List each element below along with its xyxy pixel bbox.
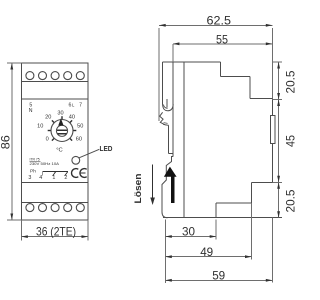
bottom terminal screw 5	[76, 204, 84, 212]
front bottom strip line	[21, 201, 88, 203]
side bottom step 2	[216, 202, 251, 204]
dial pointer triangle	[58, 118, 63, 125]
svg-text:230V 50Hz 10A: 230V 50Hz 10A	[30, 161, 60, 166]
side bottom step ledge	[252, 181, 273, 183]
front label panel top line	[21, 98, 88, 100]
svg-text:7: 7	[79, 103, 82, 109]
dim 30 line	[165, 236, 216, 238]
top terminal screw 2	[39, 72, 47, 80]
side front face	[271, 99, 273, 183]
dial outer circle	[51, 120, 73, 142]
LED leader line	[79, 149, 100, 158]
side bottom face + right extension	[163, 217, 282, 219]
top terminal screw 3	[51, 72, 59, 80]
svg-text:4: 4	[39, 175, 42, 181]
thick mounting arrow (up)	[164, 167, 177, 177]
svg-text:86: 86	[0, 135, 12, 149]
svg-text:0: 0	[46, 136, 49, 142]
svg-text:40: 40	[69, 114, 75, 120]
dim 62.5 left extension	[158, 28, 160, 121]
LED indicator circle	[72, 156, 80, 164]
bottom terminal screw 4	[64, 204, 72, 212]
svg-text:10: 10	[37, 124, 43, 130]
svg-text:20.5: 20.5	[284, 70, 298, 93]
bottom terminal screw 1	[26, 204, 34, 212]
side top step 1	[220, 62, 222, 77]
dim 55 left extension	[172, 44, 174, 62]
dim 62.5 line	[159, 24, 272, 26]
svg-text:30: 30	[182, 225, 195, 239]
dim 59 line	[165, 279, 272, 281]
svg-text:3: 3	[28, 175, 31, 181]
DIN clip arm U-curve	[163, 104, 174, 111]
svg-text:30: 30	[57, 111, 63, 117]
clip spring inner line	[166, 99, 168, 108]
dim 86 extension ticks	[7, 62, 21, 64]
changeover contact symbol	[43, 172, 68, 176]
svg-text:62.5: 62.5	[207, 14, 232, 28]
top terminal screw 4	[64, 72, 72, 80]
svg-text:LED: LED	[100, 144, 113, 153]
dim 30 right extension	[215, 220, 217, 240]
bottom dims left extension	[164, 220, 166, 284]
front top strip line	[21, 81, 88, 83]
dim 49 line	[165, 256, 251, 258]
bottom terminal screw 3	[51, 204, 59, 212]
front label panel bottom line	[21, 181, 88, 183]
svg-text:N: N	[29, 108, 33, 114]
dim 86 line	[11, 63, 13, 220]
front view body	[21, 63, 88, 220]
DIN clip arm left edge	[162, 62, 164, 105]
bottom terminal screw 2	[39, 204, 47, 212]
svg-text:36 (2TE): 36 (2TE)	[36, 225, 76, 239]
svg-text:20.5: 20.5	[284, 189, 298, 212]
dim 49 right extension	[251, 203, 253, 260]
clip hook beak	[160, 112, 169, 125]
svg-text:45: 45	[284, 135, 298, 147]
svg-text:60: 60	[76, 136, 82, 142]
right dim line 20.5 / 45 / 20.5	[278, 62, 280, 218]
dial knob	[56, 125, 67, 136]
svg-text:55: 55	[216, 32, 228, 46]
svg-text:°C: °C	[56, 148, 63, 154]
dim 36 extension lines	[20, 220, 22, 241]
knob slot lines	[57, 129, 67, 131]
svg-text:20: 20	[45, 115, 51, 121]
svg-text:49: 49	[200, 245, 213, 259]
clip lower jaw	[168, 125, 170, 153]
dial tick marks	[52, 139, 54, 141]
side top face	[163, 61, 221, 63]
svg-text:Ph: Ph	[30, 168, 36, 174]
side internal vertical line	[183, 62, 185, 218]
side back face	[172, 62, 174, 157]
svg-text:50: 50	[77, 124, 83, 130]
dim 55 line	[173, 43, 272, 45]
top terminal screw 5	[76, 72, 84, 80]
dim 62.5 right / front-face extension	[271, 28, 273, 99]
svg-text:Lösen: Lösen	[133, 174, 143, 204]
knob protrusion on front face	[271, 115, 276, 143]
CE mark	[72, 169, 79, 178]
dim 36 line	[21, 236, 88, 238]
top terminal screw 1	[26, 72, 34, 80]
sliding clip foot	[162, 157, 173, 213]
right dims extension ticks	[272, 61, 282, 63]
Loesen release arrow (down)	[152, 165, 154, 199]
side top step 2	[249, 77, 251, 99]
svg-text:59: 59	[212, 268, 225, 282]
